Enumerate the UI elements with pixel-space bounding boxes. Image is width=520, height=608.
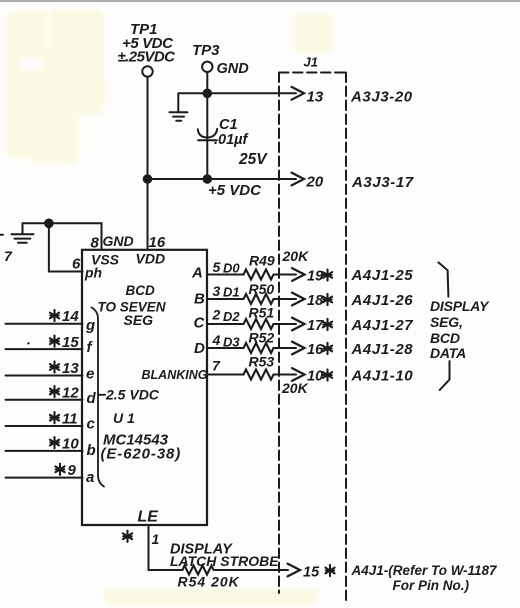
svg-text:B: B bbox=[194, 290, 205, 307]
svg-text:DATA: DATA bbox=[430, 345, 466, 361]
pin 14 label bbox=[50, 308, 79, 325]
label DISPLAY LATCH STROBE bbox=[170, 542, 279, 570]
wire input e pin 13 bbox=[6, 375, 83, 377]
svg-text:R49: R49 bbox=[249, 253, 275, 269]
svg-text:TP3: TP3 bbox=[192, 42, 220, 59]
wire input c pin 11 bbox=[6, 425, 83, 427]
svg-text:DISPLAY: DISPLAY bbox=[430, 298, 490, 314]
svg-text:9: 9 bbox=[68, 462, 77, 479]
svg-text:1: 1 bbox=[152, 531, 160, 547]
wire ground to pin 8 GND bbox=[23, 223, 102, 249]
svg-text:19: 19 bbox=[307, 268, 323, 284]
wire input g pin 14 bbox=[6, 323, 83, 325]
wire ground node to pin 6 VSS bbox=[49, 223, 83, 271]
svg-text:10: 10 bbox=[307, 368, 323, 384]
blanking wire to R53 bbox=[207, 374, 244, 376]
svg-text:a: a bbox=[86, 469, 94, 486]
svg-text:LATCH STROBE: LATCH STROBE bbox=[170, 553, 279, 569]
stray mark left edge bbox=[0, 234, 3, 236]
arrow into J1 pin 19 bbox=[278, 268, 333, 284]
resistor R53 bbox=[244, 370, 278, 380]
arrow into J1 pin 17 bbox=[278, 318, 333, 334]
svg-text:5: 5 bbox=[213, 259, 221, 275]
svg-text:14: 14 bbox=[62, 308, 79, 325]
IC U1 MC14543 body bbox=[82, 250, 207, 525]
svg-text:±.25VDC: ±.25VDC bbox=[118, 49, 177, 66]
svg-text:11: 11 bbox=[62, 411, 78, 428]
svg-text:f: f bbox=[87, 339, 94, 356]
wire input f pin 15 bbox=[6, 348, 83, 350]
svg-text:D: D bbox=[194, 340, 205, 357]
resistor R54 bbox=[183, 566, 214, 575]
+5V rail junction at C1 wire bbox=[204, 175, 212, 183]
svg-text:A3J3-20: A3J3-20 bbox=[350, 89, 413, 106]
resistor R51 bbox=[244, 319, 278, 329]
arrow into J1 pin 16 bbox=[278, 342, 333, 358]
wire ground node to J1 pin 13 bbox=[178, 93, 296, 111]
pin 9 label bbox=[55, 462, 76, 479]
label DISPLAY SEG BCD DATA bbox=[430, 298, 490, 361]
+5V rail junction at TP1 wire bbox=[144, 175, 152, 183]
svg-text:A4J1-(Refer To W-1187: A4J1-(Refer To W-1187 bbox=[351, 563, 499, 578]
svg-text:2.5 VDC: 2.5 VDC bbox=[105, 387, 160, 403]
scanner border top bbox=[0, 0, 520, 2]
wire LE pin 1 bbox=[149, 525, 289, 570]
asterisk at LE bbox=[123, 531, 132, 542]
svg-text:C: C bbox=[194, 315, 206, 332]
ground symbol near C1 bbox=[170, 112, 188, 120]
svg-text:BCD: BCD bbox=[430, 330, 460, 346]
svg-text:D1: D1 bbox=[223, 285, 240, 300]
svg-text:4: 4 bbox=[212, 332, 221, 348]
svg-text:A4J1-25: A4J1-25 bbox=[351, 267, 414, 284]
svg-text:e: e bbox=[86, 366, 94, 383]
svg-text:R54 20K: R54 20K bbox=[178, 574, 240, 590]
output C wire to R51 bbox=[207, 323, 244, 325]
svg-text:R50: R50 bbox=[249, 281, 275, 297]
junction ground node bbox=[45, 220, 53, 228]
svg-text:D0: D0 bbox=[223, 260, 240, 275]
ground symbol left of U1 bbox=[12, 223, 34, 243]
svg-text:A4J1-28: A4J1-28 bbox=[351, 341, 414, 358]
svg-text:A3J3-17: A3J3-17 bbox=[351, 174, 414, 191]
output A wire to R49 bbox=[207, 274, 244, 276]
svg-text:13: 13 bbox=[307, 89, 324, 106]
svg-text:15: 15 bbox=[62, 334, 79, 351]
connector J1 dashed outline right bbox=[345, 73, 347, 602]
wire input d pin 12 bbox=[6, 399, 83, 401]
svg-text:g: g bbox=[85, 317, 95, 334]
output B wire to R50 bbox=[207, 298, 244, 300]
svg-text:J1: J1 bbox=[304, 55, 318, 70]
pin 12 label bbox=[50, 384, 79, 401]
svg-text:3: 3 bbox=[213, 283, 221, 299]
junction TP3 ground node bbox=[204, 90, 212, 98]
svg-text:25V: 25V bbox=[238, 151, 268, 168]
svg-text:20K: 20K bbox=[281, 380, 309, 396]
IC input pin letters bbox=[85, 317, 97, 486]
wire input b pin 10 bbox=[6, 450, 83, 452]
svg-text:7: 7 bbox=[4, 248, 13, 264]
svg-text:GND: GND bbox=[103, 233, 134, 249]
pin 11 label bbox=[50, 411, 78, 428]
svg-text:.01µf: .01µf bbox=[214, 132, 250, 148]
svg-text:LE: LE bbox=[138, 509, 160, 526]
svg-text:BLANKING: BLANKING bbox=[142, 368, 208, 382]
resistor R52 bbox=[244, 343, 278, 353]
svg-text:13: 13 bbox=[62, 360, 79, 377]
svg-text:For Pin No.): For Pin No.) bbox=[393, 578, 470, 593]
svg-text:20K: 20K bbox=[282, 248, 310, 264]
svg-text:A4J1-26: A4J1-26 bbox=[351, 292, 414, 309]
arrow into J1 pin 13 bbox=[292, 87, 324, 106]
svg-text:U 1: U 1 bbox=[113, 410, 135, 426]
svg-text:16: 16 bbox=[307, 342, 324, 358]
svg-text:D2: D2 bbox=[223, 309, 240, 324]
speck left of pin 15 bbox=[27, 342, 29, 344]
svg-text:10: 10 bbox=[62, 435, 79, 452]
net label A4J1 refer note bbox=[351, 563, 499, 593]
svg-text:6: 6 bbox=[72, 256, 81, 273]
IC U1 internal labels bbox=[84, 251, 208, 526]
output D wire to R52 bbox=[207, 347, 244, 349]
svg-text:A: A bbox=[191, 265, 203, 282]
pin 15 label bbox=[50, 334, 79, 351]
wire +5V rail to J1 pin 20 bbox=[148, 178, 297, 180]
svg-text:(E-620-38): (E-620-38) bbox=[101, 446, 182, 463]
resistor R49 bbox=[244, 270, 278, 280]
pin 10 label bbox=[50, 435, 79, 452]
arrow into J1 pin 18 bbox=[278, 293, 333, 309]
svg-text:BCD: BCD bbox=[126, 283, 155, 298]
svg-text:7: 7 bbox=[212, 358, 221, 374]
arrow into J1 pin 15 bbox=[288, 564, 335, 581]
pin 13 label bbox=[50, 360, 79, 377]
svg-text:SEG,: SEG, bbox=[430, 314, 463, 330]
wire TP1 to VDD pin 16 bbox=[147, 77, 149, 249]
svg-text:R52: R52 bbox=[249, 329, 275, 345]
svg-text:ph: ph bbox=[84, 265, 102, 281]
brace display data bottom bbox=[440, 361, 450, 390]
svg-text:20: 20 bbox=[306, 174, 324, 191]
svg-text:R53: R53 bbox=[249, 354, 275, 370]
svg-text:d: d bbox=[87, 390, 97, 407]
svg-text:VDD: VDD bbox=[136, 251, 166, 267]
svg-text:GND: GND bbox=[217, 61, 250, 77]
test point TP3 bbox=[192, 42, 249, 77]
brace around input pins bbox=[92, 308, 105, 487]
connector J1 dashed outline top bbox=[279, 72, 346, 74]
svg-text:15: 15 bbox=[303, 565, 320, 581]
arrow into J1 pin 20 bbox=[292, 173, 324, 191]
capacitor C1 bbox=[198, 117, 268, 168]
wire TP3 down to +5V rail bbox=[206, 72, 208, 179]
svg-text:16: 16 bbox=[149, 234, 166, 251]
svg-text:17: 17 bbox=[307, 318, 324, 334]
svg-text:18: 18 bbox=[307, 293, 324, 309]
resistor R50 bbox=[244, 294, 278, 304]
connector J1 dashed outline left bbox=[278, 73, 280, 594]
wire input a pin 9 bbox=[6, 477, 83, 479]
brace display data top bbox=[438, 262, 448, 296]
svg-text:D3: D3 bbox=[223, 334, 240, 349]
svg-text:12: 12 bbox=[62, 384, 79, 401]
svg-text:2: 2 bbox=[212, 306, 221, 322]
arrow into J1 pin 10 bbox=[278, 368, 333, 384]
svg-text:+5 VDC: +5 VDC bbox=[208, 182, 262, 199]
svg-text:C1: C1 bbox=[219, 117, 238, 133]
test point TP1 bbox=[118, 21, 177, 77]
svg-text:b: b bbox=[87, 442, 96, 459]
svg-text:SEG: SEG bbox=[124, 312, 154, 328]
svg-text:c: c bbox=[87, 416, 96, 433]
svg-text:A4J1-27: A4J1-27 bbox=[351, 317, 414, 334]
svg-text:R51: R51 bbox=[249, 305, 275, 321]
svg-text:A4J1-10: A4J1-10 bbox=[351, 368, 414, 385]
